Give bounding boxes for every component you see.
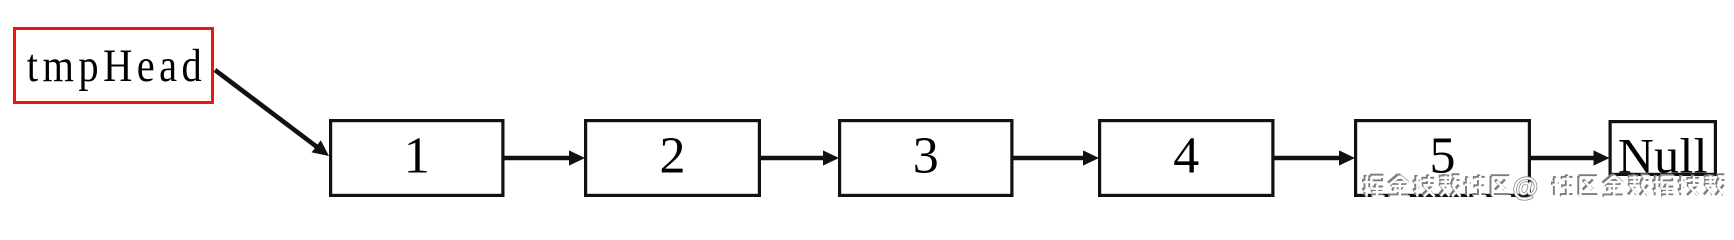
svg-text:@: @ — [1513, 172, 1538, 202]
null box — [1610, 122, 1715, 175]
node box 3 — [840, 121, 1012, 196]
node box 2 — [586, 121, 760, 196]
svg-text:tmpHead: tmpHead — [27, 40, 206, 91]
tmpHead box — [15, 29, 213, 103]
svg-text:2: 2 — [660, 128, 686, 185]
arrow from node 5 — [1530, 156, 1597, 161]
arrow from node 3 — [1013, 156, 1087, 161]
svg-text:3: 3 — [913, 128, 939, 185]
node box 4 — [1100, 121, 1273, 196]
svg-text:4: 4 — [1173, 128, 1199, 185]
tmpHead label — [27, 40, 206, 91]
arrow from node 2 — [760, 156, 826, 161]
node box 5 — [1356, 121, 1530, 196]
watermark juejin community — [1362, 174, 1724, 195]
arrow from node 4 — [1274, 156, 1343, 161]
arrow tmpHead to node 1 — [215, 70, 319, 148]
svg-text:1: 1 — [404, 128, 430, 185]
arrow from node 1 — [504, 156, 573, 161]
node box 1 — [331, 121, 503, 196]
